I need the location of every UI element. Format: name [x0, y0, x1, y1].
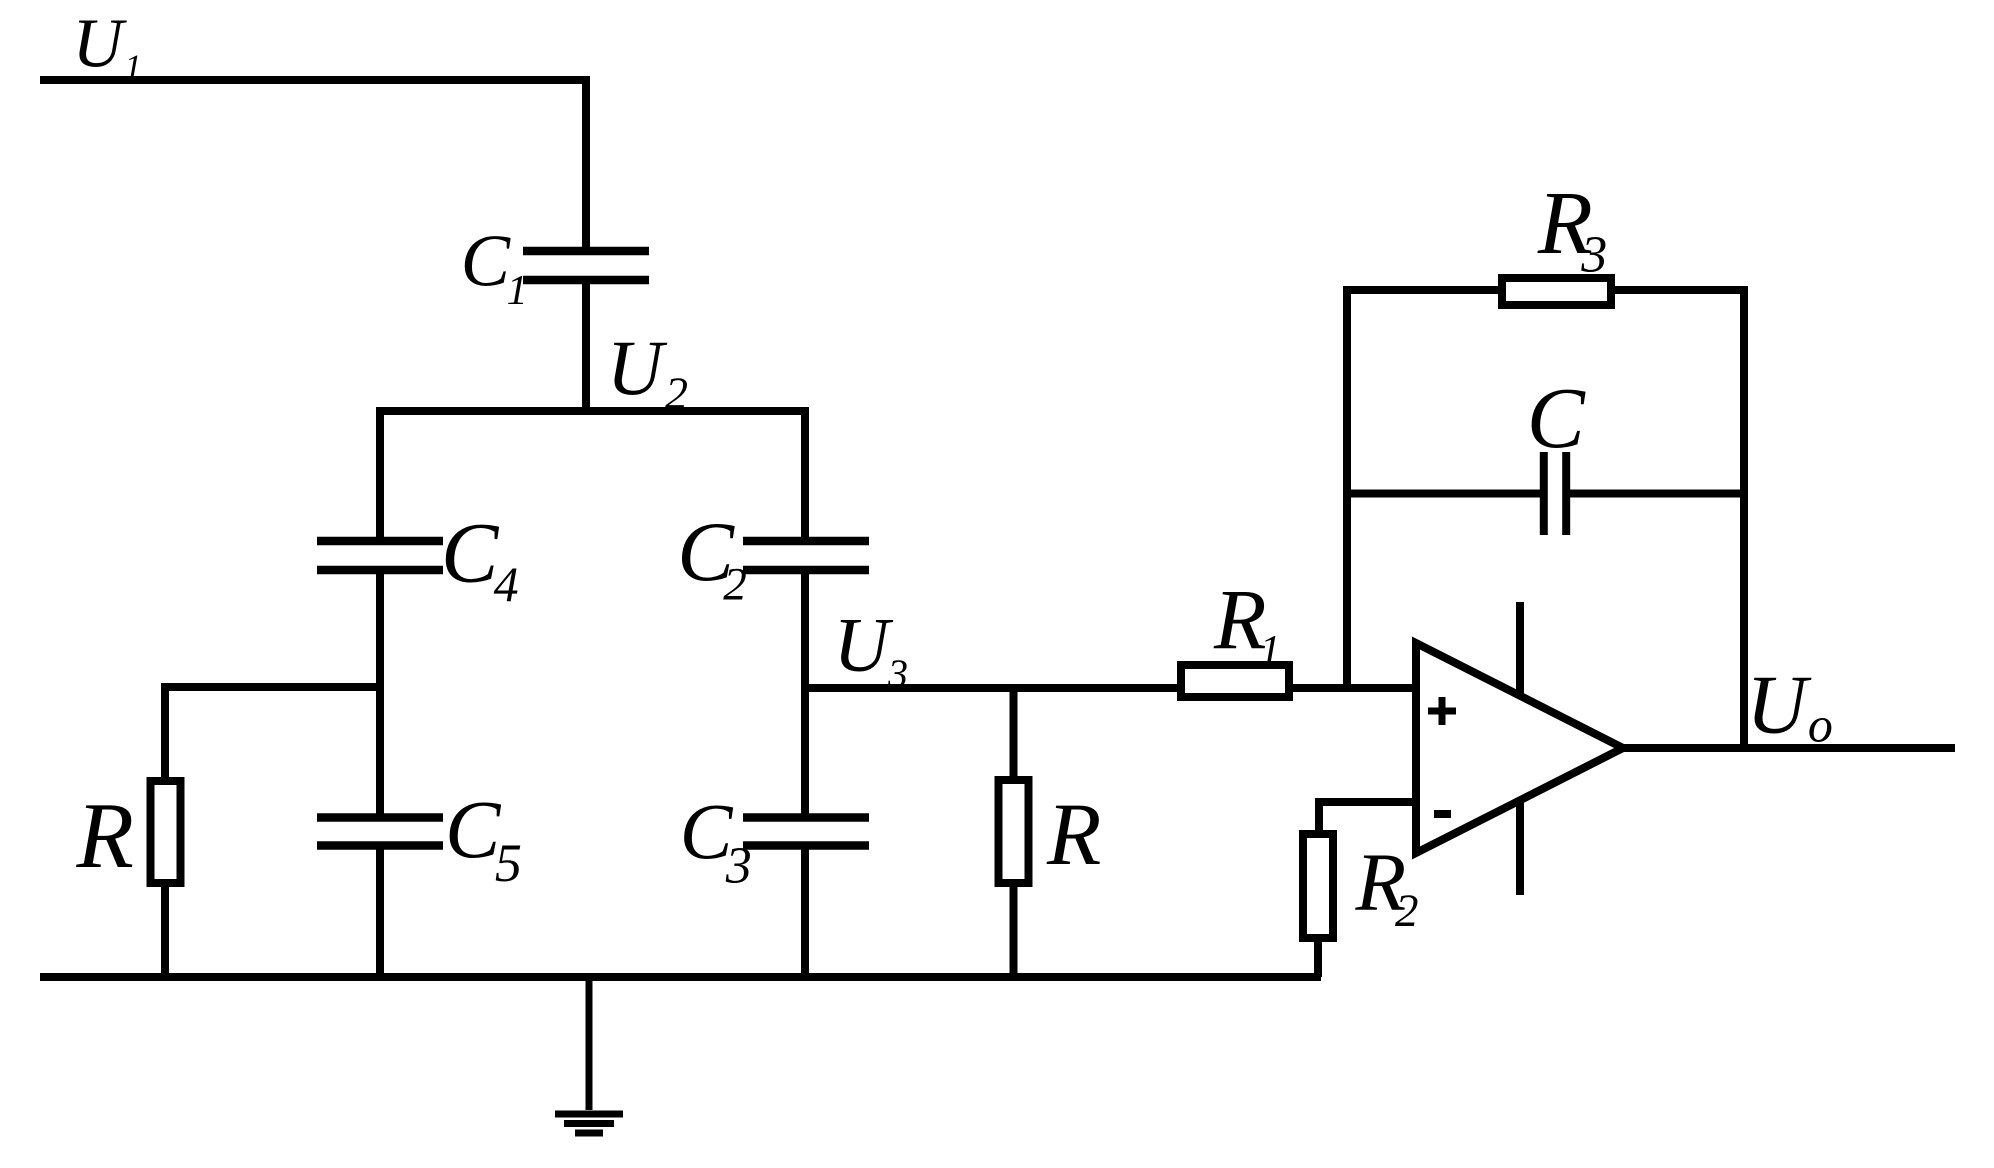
svg-text:1: 1 [124, 48, 141, 87]
wire bottom rail [40, 973, 1321, 981]
wire right branch upper (U2 to C2) [801, 411, 809, 541]
wire capacitor C left lead [1347, 490, 1540, 498]
wire C1 bottom to node U2 [582, 280, 590, 415]
wire R1 to op-amp + input with feedback junction [1289, 684, 1416, 692]
svg-text:R: R [1046, 786, 1101, 884]
wire op-amp power top [1516, 602, 1524, 694]
svg-text:R: R [1213, 571, 1267, 667]
wire U1 input top horizontal and down to C1 [40, 80, 586, 251]
svg-text:1: 1 [1260, 628, 1281, 674]
capacitor C feedback vertical plates [1544, 452, 1566, 535]
wire op-amp power bottom [1516, 799, 1524, 895]
svg-text:3: 3 [725, 837, 752, 894]
wire R2 bottom to bottom rail [1314, 938, 1322, 977]
wire right R top stub [1010, 688, 1018, 780]
svg-text:2: 2 [1395, 885, 1419, 937]
svg-text:C: C [1527, 369, 1586, 466]
svg-text:C: C [445, 783, 502, 875]
wire R bottom to bottom rail [161, 883, 169, 977]
wire right branch lower (C3 to bottom rail) [801, 845, 809, 977]
svg-text:o: o [1808, 696, 1833, 752]
op-amp U1 triangle [1416, 643, 1623, 853]
svg-text:3: 3 [1580, 226, 1607, 283]
ground stem [586, 977, 593, 1110]
wire left branch upper (U2 to C4) [376, 411, 384, 541]
wire output Uo [1620, 744, 1955, 752]
ground symbol bars [555, 1114, 623, 1133]
op-amp minus input sign [1434, 810, 1451, 818]
svg-text:U: U [73, 6, 128, 83]
capacitor C5 [317, 818, 443, 846]
wire left horizontal to R and down to R top [165, 687, 380, 781]
svg-text:C: C [441, 505, 500, 601]
svg-text:C: C [461, 221, 512, 303]
wire capacitor C right lead [1570, 490, 1744, 498]
op-amp plus input sign [1428, 697, 1456, 725]
svg-text:R: R [76, 784, 134, 888]
svg-text:1: 1 [507, 268, 528, 314]
svg-text:U: U [834, 602, 894, 688]
svg-text:2: 2 [665, 368, 688, 419]
wire right branch middle (C2 to C3) [801, 570, 809, 818]
svg-text:U: U [607, 324, 668, 411]
wire R3 right to right vertical down to output [1611, 290, 1744, 748]
capacitor C4 [317, 541, 443, 570]
wire op-amp - input from R2 [1319, 802, 1416, 834]
capacitor C3 [743, 818, 869, 846]
svg-text:4: 4 [494, 556, 519, 612]
capacitor C1 [523, 251, 649, 280]
wire left branch lower (C5 to bottom rail) [376, 845, 384, 977]
wire left branch middle (C4 to C5) [376, 570, 384, 818]
wire right R bottom stub [1010, 883, 1018, 977]
svg-text:3: 3 [887, 651, 908, 696]
svg-text:U: U [1746, 659, 1812, 752]
svg-text:5: 5 [495, 833, 522, 893]
resistor R1 box [1181, 665, 1289, 697]
svg-text:2: 2 [723, 559, 747, 611]
wire feedback left vertical [1347, 290, 1502, 688]
resistor R2 box [1303, 834, 1333, 938]
resistor R3 box [1502, 278, 1611, 305]
wire node U2 horizontal [376, 407, 809, 415]
wire node U3 horizontal to R1 [805, 684, 1181, 692]
capacitor C2 [743, 541, 869, 570]
resistor R right box [999, 780, 1029, 883]
resistor R left box [151, 781, 181, 883]
